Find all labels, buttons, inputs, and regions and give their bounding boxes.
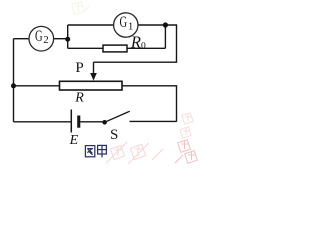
svg-text:S: S [110, 127, 118, 143]
svg-text:0: 0 [141, 41, 146, 51]
svg-text:G: G [35, 28, 43, 45]
svg-text:R: R [74, 91, 84, 106]
svg-text:G: G [120, 14, 128, 31]
svg-text:R: R [130, 33, 141, 52]
svg-text:E: E [69, 133, 79, 148]
svg-text:2: 2 [43, 34, 49, 46]
svg-text:P: P [75, 60, 83, 76]
svg-text:1: 1 [128, 20, 133, 32]
